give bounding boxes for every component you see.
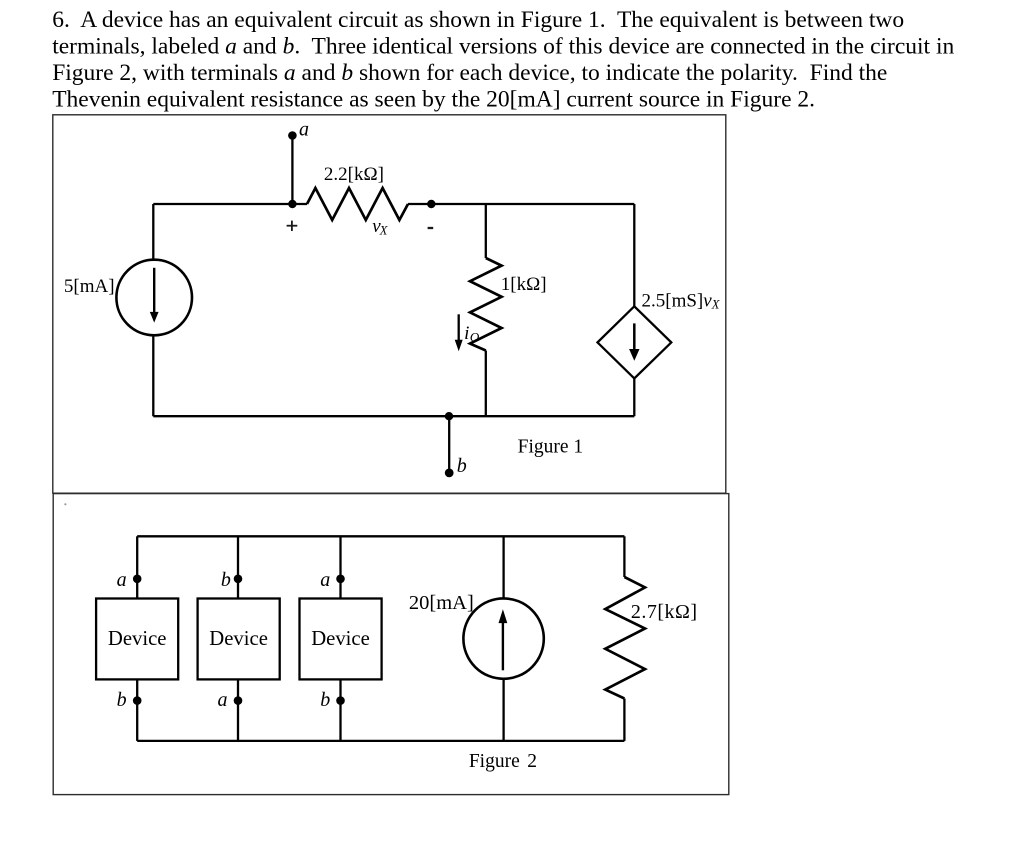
stray speck xyxy=(64,503,66,505)
resistor R3 2.7k zigzag xyxy=(605,577,645,699)
wire: terminal a stub xyxy=(291,136,293,205)
svg-text:Device: Device xyxy=(311,628,370,650)
current source I1 circle xyxy=(116,260,192,336)
node dot device2 b xyxy=(234,575,243,584)
node dot device3 b xyxy=(336,696,345,705)
wire: left branch upper xyxy=(152,204,154,260)
wire: middle branch lower xyxy=(485,351,487,417)
wire: device1 top stub xyxy=(136,536,138,598)
device D3 box xyxy=(300,599,382,680)
wire: right branch upper xyxy=(633,204,635,307)
node dot device2 a xyxy=(234,696,243,705)
problem statement paragraph xyxy=(52,7,954,113)
wire: top horizontal xyxy=(153,203,307,205)
svg-text:5[mA]: 5[mA] xyxy=(64,276,115,297)
device D1 box xyxy=(96,599,178,680)
wire: fig2 bottom horizontal xyxy=(137,740,624,742)
svg-text:2.2[kΩ]: 2.2[kΩ] xyxy=(324,164,384,185)
svg-text:a: a xyxy=(299,119,309,141)
node dot device1 a xyxy=(133,575,142,584)
svg-text:a: a xyxy=(218,689,228,711)
wire: right branch lower xyxy=(633,378,635,416)
dependent source G1 diamond xyxy=(598,306,672,378)
device D2 box xyxy=(198,599,280,680)
svg-text:a: a xyxy=(320,569,330,591)
wire: source branch upper xyxy=(502,536,504,598)
figure 2 border box xyxy=(53,494,729,795)
arrow inside current source I2 (up) xyxy=(502,622,504,670)
wire: middle branch upper xyxy=(485,204,487,258)
node dot at R1 left xyxy=(288,200,296,208)
svg-text:Device: Device xyxy=(209,628,268,650)
svg-text:Figure 2: Figure 2 xyxy=(469,751,537,772)
svg-text:b: b xyxy=(221,569,231,591)
wire: source branch lower xyxy=(502,679,504,741)
svg-text:Device: Device xyxy=(108,628,167,650)
arrow i_O (down) xyxy=(458,314,460,341)
svg-text:O: O xyxy=(470,329,480,344)
minus sign xyxy=(428,227,434,229)
svg-text:2.7[kΩ]: 2.7[kΩ] xyxy=(631,601,698,623)
svg-text:1[kΩ]: 1[kΩ] xyxy=(501,274,547,295)
wire: device2 top stub xyxy=(237,536,239,598)
figure 1 border box xyxy=(53,115,726,493)
node dot terminal a xyxy=(288,131,297,140)
svg-text:b: b xyxy=(320,689,330,711)
wire: resistor branch upper xyxy=(623,536,625,577)
wire: left branch lower xyxy=(152,335,154,416)
wire: fig2 top horizontal xyxy=(137,535,624,537)
svg-text:2.5[mS]vX: 2.5[mS]vX xyxy=(642,290,721,311)
wire: terminal b stub xyxy=(448,416,450,473)
svg-text:terminals, labeled a and b. T: terminals, labeled a and b. Three identi… xyxy=(52,33,954,59)
wire: device1 bottom stub xyxy=(136,679,138,741)
svg-text:6. A device has an equivalent: 6. A device has an equivalent circuit as… xyxy=(52,7,904,33)
wire: bottom horizontal xyxy=(153,415,634,417)
plus sign xyxy=(287,221,298,231)
node dot device1 b xyxy=(133,696,142,705)
resistor R2 1k zigzag xyxy=(470,258,502,351)
node dot terminal b xyxy=(445,469,454,478)
svg-text:i: i xyxy=(464,323,469,344)
arrow inside dependent source (down) xyxy=(633,323,636,351)
current source I2 circle xyxy=(463,598,543,678)
svg-text:Figure 2, with terminals a and: Figure 2, with terminals a and b shown f… xyxy=(52,60,887,86)
svg-text:b: b xyxy=(117,689,127,711)
wire: device2 bottom stub xyxy=(237,679,239,741)
wire: device3 bottom stub xyxy=(339,679,341,741)
svg-text:20[mA]: 20[mA] xyxy=(409,592,474,614)
wire: resistor branch lower xyxy=(623,699,625,741)
node dot at R1 right xyxy=(427,200,435,208)
arrow inside current source I1 (down) xyxy=(153,268,155,313)
svg-text:Figure 1: Figure 1 xyxy=(518,436,584,457)
svg-text:Thevenin equivalent resistance: Thevenin equivalent resistance as seen b… xyxy=(52,87,815,113)
svg-text:b: b xyxy=(457,455,467,477)
svg-text:a: a xyxy=(117,569,127,591)
node dot bottom junction xyxy=(445,412,453,420)
wire: device3 top stub xyxy=(339,536,341,598)
svg-text:X: X xyxy=(379,223,389,237)
node dot device3 a xyxy=(336,575,345,584)
resistor R1 2.2k zigzag xyxy=(307,188,408,220)
